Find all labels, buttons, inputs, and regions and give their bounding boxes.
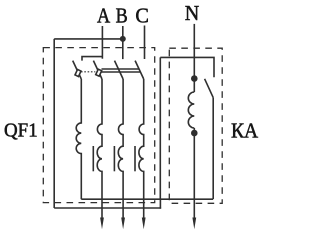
trip bar lower edge — [102, 71, 141, 73]
svg-text:QF1: QF1 — [4, 121, 38, 142]
wire KA contact drop — [212, 98, 214, 200]
wire B tap vertical — [53, 39, 55, 208]
load arrow pole 3 — [121, 218, 125, 230]
wire bottom return riser — [159, 199, 161, 209]
wire neutral lower — [193, 128, 195, 218]
pole 1 wire with magnetic release coil (3 humps) — [76, 79, 81, 199]
wire neutral N drop — [193, 24, 195, 92]
load arrow neutral — [192, 218, 196, 230]
svg-text:B: B — [116, 4, 128, 28]
svg-text:КА: КА — [231, 119, 259, 143]
wire phase C drop — [144, 26, 146, 60]
QF1 enclosure dashed box — [43, 48, 154, 203]
KA contact blade — [205, 79, 214, 98]
svg-text:C: C — [135, 4, 149, 28]
pole 3 blade — [115, 61, 124, 79]
KA enclosure dashed box — [169, 48, 222, 203]
wire phase A drop — [101, 26, 103, 59]
node B tap junction — [120, 36, 126, 42]
pole 2 wire with release coil and heater humps — [97, 79, 102, 218]
pole 4 wire with release coil and heater humps — [139, 79, 144, 218]
pole 4 blade — [135, 61, 144, 79]
pole 2 linkage square — [96, 69, 102, 76]
svg-text:A: A — [97, 4, 111, 28]
pole 3 heater core line — [113, 146, 115, 171]
wire KA top feed — [160, 57, 214, 77]
node KA coil bottom — [191, 130, 198, 137]
trip bar upper edge — [102, 68, 140, 70]
pole 1 blade — [73, 61, 82, 79]
pole 2 heater core line — [92, 146, 94, 171]
relay coil KA (3 humps) — [188, 92, 194, 128]
load arrow pole 4 — [142, 218, 146, 230]
pole 2 blade — [93, 61, 102, 79]
wire KA loop riser — [159, 57, 161, 199]
wire phase B drop — [122, 26, 124, 59]
pole 3 wire with release coil and heater humps — [118, 79, 123, 218]
wire B tap horizontal — [54, 38, 123, 40]
pole 4 heater core line — [134, 146, 136, 171]
pole 1 linkage square — [75, 69, 81, 76]
pole 1 fixed-contact bracket — [82, 57, 102, 61]
svg-text:N: N — [185, 1, 200, 25]
node KA coil top — [191, 75, 198, 82]
wire QF1 internal bus — [81, 198, 213, 200]
trip linkage dashed — [81, 71, 95, 73]
load arrow pole 2 — [100, 218, 104, 230]
wire bottom return — [54, 207, 161, 209]
